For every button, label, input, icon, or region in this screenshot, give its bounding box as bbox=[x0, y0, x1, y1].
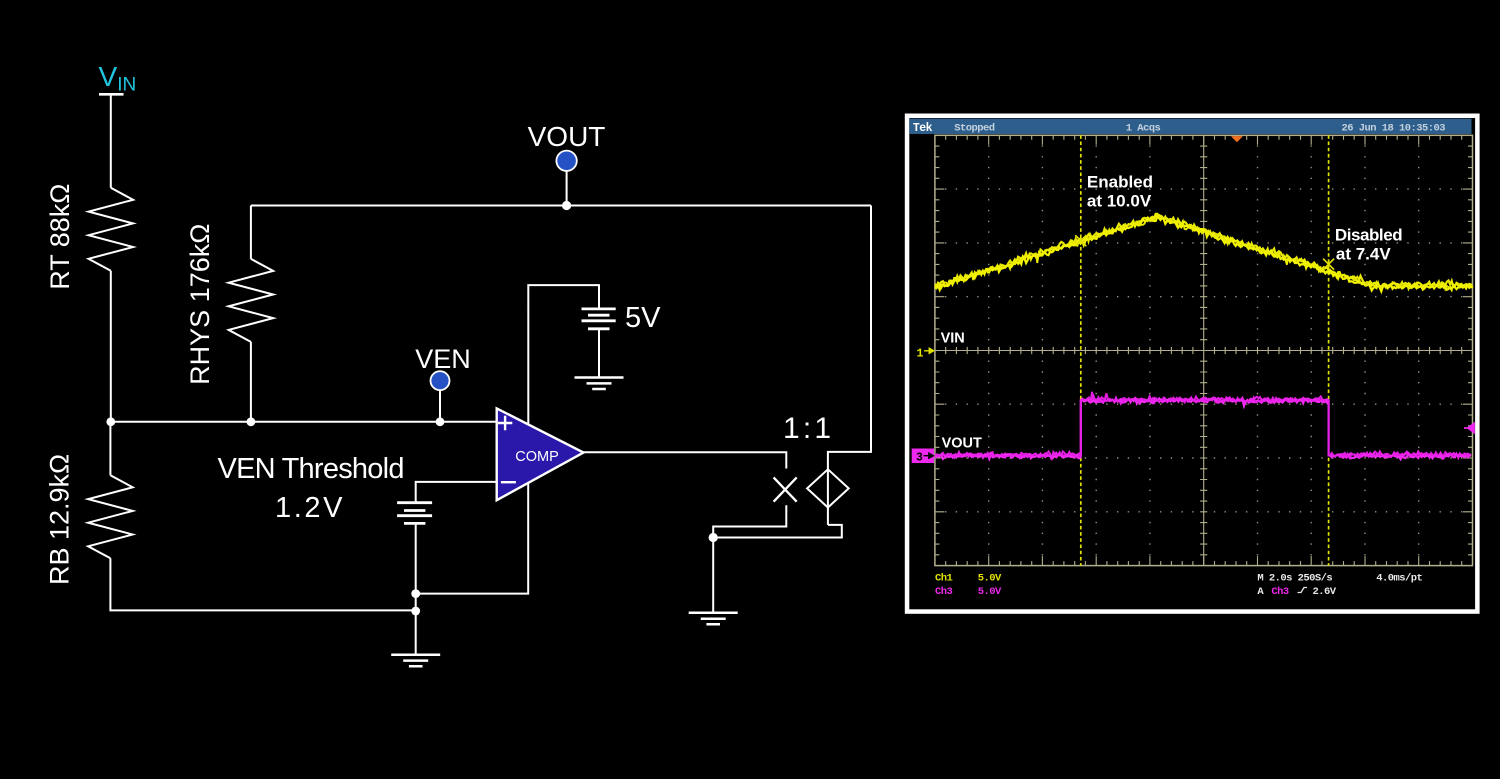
waveform Ch3 VOUT pulse bbox=[935, 393, 1471, 460]
wire current source bottom bbox=[827, 508, 829, 525]
resistor RT 88k bbox=[89, 188, 134, 271]
resistor RHYS 176k bbox=[229, 259, 274, 342]
multiplier X symbol bbox=[774, 477, 797, 501]
ground below B1 bbox=[575, 378, 624, 390]
battery B2 VEN threshold 1.2V bbox=[397, 503, 432, 524]
battery B1 5V bbox=[582, 309, 616, 329]
ground below output bbox=[689, 613, 738, 625]
svg-text:3: 3 bbox=[916, 451, 923, 464]
cursor 2 dashed bbox=[1328, 135, 1330, 565]
cursor intersection marker 2 bbox=[1323, 259, 1334, 270]
wire VIN to RT bbox=[110, 94, 112, 188]
node battery gnd junction 2 bbox=[411, 607, 420, 616]
node B junction bbox=[247, 417, 256, 426]
label VEN bbox=[415, 344, 471, 374]
wire RT to node A bbox=[110, 271, 112, 422]
label VOUT bbox=[528, 121, 606, 152]
label 5V bbox=[625, 302, 661, 334]
label 1:1 bbox=[783, 412, 834, 445]
scope header bar bbox=[909, 119, 1471, 134]
resistor RB 12.9k bbox=[88, 475, 133, 558]
cursor intersection marker 1 bbox=[1075, 235, 1086, 246]
oscilloscope screenshot panel bbox=[905, 114, 1480, 614]
wire X to lower net bbox=[713, 505, 786, 537]
svg-text:4.0ms/pt: 4.0ms/pt bbox=[1376, 573, 1422, 585]
svg-text:5.0V: 5.0V bbox=[978, 586, 1002, 598]
svg-text:at 7.4V: at 7.4V bbox=[1336, 245, 1391, 264]
label RT 88k bbox=[45, 184, 75, 290]
svg-text:VEN: VEN bbox=[415, 344, 471, 374]
scope white border frame bbox=[905, 114, 1480, 614]
svg-text:1 Acqs: 1 Acqs bbox=[1126, 122, 1161, 134]
svg-text:VOUT: VOUT bbox=[528, 121, 606, 152]
wire VOUT terminal to net bbox=[566, 170, 568, 206]
node A junction bbox=[106, 417, 115, 426]
wire RB bottom to gnd net bbox=[110, 558, 415, 610]
svg-text:VOUT: VOUT bbox=[942, 436, 982, 452]
cursor 1 dashed bbox=[1080, 135, 1082, 565]
svg-text:COMP: COMP bbox=[515, 449, 559, 465]
node VOUT junction bbox=[562, 201, 571, 210]
graticule center crosshair lines bbox=[935, 135, 1473, 565]
label COMP bbox=[515, 449, 559, 465]
wire main horizontal net to comparator + bbox=[111, 421, 498, 423]
label RB 12.9k bbox=[45, 454, 75, 585]
svg-text:1:1: 1:1 bbox=[783, 412, 834, 445]
svg-text:Enabled: Enabled bbox=[1087, 172, 1153, 191]
label VEN Threshold 1.2V bbox=[218, 453, 405, 524]
svg-text:VEN Threshold: VEN Threshold bbox=[218, 453, 405, 485]
op-amp U1 comparator COMP bbox=[497, 408, 584, 500]
wire RHYS to node B bbox=[250, 342, 252, 422]
trigger level arrow right bbox=[1464, 424, 1474, 433]
current source arrow line bbox=[827, 469, 829, 507]
svg-text:26 Jun 18 10:35:03: 26 Jun 18 10:35:03 bbox=[1342, 122, 1446, 134]
wire RHYS top bbox=[250, 206, 252, 259]
VIN terminal bar bbox=[99, 93, 124, 96]
node output gnd junction bbox=[709, 533, 718, 542]
svg-text:RT 88kΩ: RT 88kΩ bbox=[45, 184, 75, 290]
trigger position marker bbox=[1231, 136, 1242, 142]
graticule dotted grid lines bbox=[945, 146, 1462, 555]
graticule frame bbox=[935, 135, 1473, 565]
svg-text:Disabled: Disabled bbox=[1335, 225, 1402, 244]
svg-text:5V: 5V bbox=[625, 302, 661, 334]
svg-text:RHYS 176kΩ: RHYS 176kΩ bbox=[185, 224, 215, 385]
wire battery B2 down to ground bbox=[415, 525, 417, 655]
channel 3 reference marker bbox=[912, 449, 934, 464]
svg-text:2.6V: 2.6V bbox=[1313, 586, 1337, 598]
svg-text:5.0V: 5.0V bbox=[978, 573, 1002, 585]
svg-text:Stopped: Stopped bbox=[954, 122, 995, 134]
svg-text:at 10.0V: at 10.0V bbox=[1087, 191, 1152, 210]
wire node to ground bbox=[712, 538, 714, 613]
svg-text:1: 1 bbox=[917, 348, 924, 361]
svg-text:RB 12.9kΩ: RB 12.9kΩ bbox=[45, 454, 75, 585]
wire node A to RB bbox=[109, 422, 111, 476]
label RHYS 176k bbox=[185, 224, 215, 385]
ground below B2 bbox=[391, 655, 440, 667]
svg-text:M 2.0s 250S/s: M 2.0s 250S/s bbox=[1257, 573, 1332, 585]
current source F1 diamond bbox=[807, 469, 849, 507]
terminal VOUT bbox=[556, 151, 576, 171]
node VIN terminal label bbox=[99, 61, 137, 96]
svg-text:Ch3: Ch3 bbox=[935, 586, 953, 598]
graticule edge tick marks bbox=[935, 135, 1473, 565]
wire comparator output bbox=[584, 452, 787, 468]
svg-text:Ch3: Ch3 bbox=[1271, 586, 1289, 598]
svg-text:Ch1: Ch1 bbox=[935, 573, 953, 585]
terminal VEN bbox=[431, 371, 450, 390]
wire comparator V+ supply bbox=[528, 285, 599, 424]
svg-text:Tek: Tek bbox=[913, 122, 933, 135]
svg-text:VIN: VIN bbox=[941, 331, 965, 347]
waveform Ch1 VIN ramp bbox=[935, 214, 1473, 289]
wire comparator - input to battery B2 bbox=[416, 482, 498, 503]
wire lower net to current source bbox=[713, 525, 842, 538]
wire comparator gnd pin bbox=[416, 483, 529, 594]
pin - of comparator bbox=[501, 481, 516, 483]
wire right side down to current source bbox=[828, 206, 871, 470]
pin + of comparator bbox=[498, 416, 512, 430]
node VEN junction bbox=[436, 417, 445, 426]
wire VEN to node bbox=[439, 390, 441, 422]
svg-text:1.2V: 1.2V bbox=[275, 492, 345, 524]
wire battery B1 to ground bbox=[598, 330, 600, 378]
wire VOUT net horizontal bbox=[251, 205, 871, 207]
node battery gnd junction 1 bbox=[411, 589, 420, 598]
